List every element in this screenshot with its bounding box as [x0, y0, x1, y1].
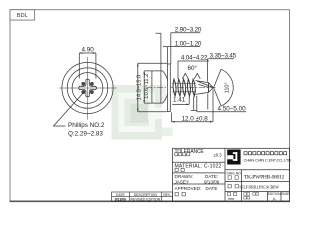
- dim 10.6~11.2: [144, 71, 152, 103]
- head dome outline: [152, 71, 163, 103]
- sheet border: [10, 10, 290, 202]
- dim 4.50~5.00: [197, 94, 246, 112]
- thread lens 2: [178, 79, 181, 96]
- cjk 品名: [228, 185, 238, 188]
- top view horizontal centerline: [59, 87, 117, 89]
- column separator: [224, 148, 226, 201]
- top view vertical centerline: [87, 57, 89, 120]
- svg-text:1.00~1.20: 1.00~1.20: [175, 40, 202, 47]
- svg-text:DWG.NO: DWG.NO: [227, 172, 242, 176]
- svg-text:4.90: 4.90: [81, 46, 94, 53]
- svg-text:APPROVED:: APPROVED:: [175, 186, 202, 191]
- leader line to phillips note: [54, 92, 85, 127]
- thread lens 3: [183, 79, 186, 96]
- svg-text:1.41: 1.41: [173, 97, 186, 104]
- svg-text:Q:2.29~2.83: Q:2.29~2.83: [68, 131, 103, 138]
- dim 1.00~1.20 line: [163, 47, 200, 64]
- row separators left column: [173, 161, 226, 163]
- dwg no label: [227, 172, 290, 202]
- svg-text:PAGE: PAGE: [281, 192, 290, 196]
- svg-text:±0.3: ±0.3: [214, 152, 223, 157]
- thread lens 1: [173, 79, 176, 96]
- svg-text:CHAN CHIN C.ENT.CO.,LTD.: CHAN CHIN C.ENT.CO.,LTD.: [244, 158, 292, 163]
- drill flute edge: [197, 81, 213, 88]
- drill point tip: [209, 83, 214, 93]
- cjk size/scale tiny: [244, 193, 259, 199]
- dim 14.0~15.0: [138, 63, 167, 112]
- svg-text:9/13/06: 9/13/06: [204, 180, 220, 185]
- watermark logo: [112, 85, 173, 140]
- svg-text:DATE: DATE: [206, 186, 218, 191]
- right rows: [225, 169, 289, 171]
- label/value separator: [241, 170, 243, 202]
- thread lens 4: [187, 79, 190, 96]
- svg-text:BDL: BDL: [17, 13, 28, 19]
- cjk 圖號: [228, 176, 238, 179]
- dim 2.90~3.20 left tail: [156, 33, 161, 103]
- bottom row cell separators: [267, 192, 269, 202]
- top view middle circle (pan dome): [67, 68, 108, 109]
- company logo: [227, 150, 240, 165]
- top view outer circle (head flange): [62, 62, 113, 113]
- texts: dimensions: [68, 27, 246, 138]
- svg-text:TK-PWPHB-08012: TK-PWPHB-08012: [244, 174, 285, 180]
- svg-text:3.35~3.45: 3.35~3.45: [210, 53, 237, 60]
- thread lens 5: [192, 79, 195, 96]
- 60 degree carets: [182, 73, 200, 78]
- phillips recess corner blobs: [82, 82, 85, 85]
- svg-text:Phillips NO.2: Phillips NO.2: [68, 122, 105, 129]
- svg-text:DESCRIPTION: DESCRIPTION: [134, 193, 158, 197]
- side view centerline: [147, 87, 218, 89]
- sheet bottom thick border: [10, 200, 290, 202]
- revision strip: [112, 192, 173, 201]
- svg-text:110°: 110°: [224, 82, 230, 93]
- svg-text:4.50~5.00: 4.50~5.00: [218, 105, 247, 112]
- cjk 材質: [175, 168, 184, 171]
- svg-text:REV.: REV.: [163, 193, 171, 197]
- svg-text:REVISED EDITION: REVISED EDITION: [131, 197, 161, 201]
- svg-text:60°: 60°: [188, 64, 198, 72]
- dim 4.04~4.22 line: [178, 61, 209, 79]
- title block outline: [173, 148, 290, 201]
- svg-text:9/13/06: 9/13/06: [115, 197, 126, 201]
- title block texts: [175, 149, 223, 196]
- svg-text:JASEY: JASEY: [175, 180, 190, 185]
- top view inner circle (dome crown): [72, 73, 103, 104]
- BDL box: [10, 10, 35, 20]
- dim 4.90 extension lines: [78, 53, 80, 79]
- svg-text:DRAWN:: DRAWN:: [175, 174, 193, 179]
- title block: [173, 148, 290, 201]
- cjk 核准: [175, 193, 185, 196]
- svg-text:14.0~15.0: 14.0~15.0: [136, 75, 142, 100]
- drill point body: [196, 81, 209, 95]
- dim 2.90~3.20 line: [171, 33, 200, 64]
- head flange: [168, 64, 171, 112]
- svg-text:SELF DRILLING SCREW: SELF DRILLING SCREW: [239, 184, 279, 189]
- dim 12.0 +-0.8: [172, 90, 214, 122]
- dim 1.41: [172, 97, 197, 111]
- svg-text:2.90~3.20: 2.90~3.20: [175, 27, 202, 34]
- cjk 單位: [228, 193, 237, 196]
- point angle fan: [214, 69, 234, 106]
- svg-text:12.0 ±0.8: 12.0 ±0.8: [182, 116, 209, 123]
- svg-text:mm: mm: [228, 197, 234, 201]
- thread root lines: [173, 82, 197, 84]
- head dome crown arc: [163, 71, 169, 103]
- company chinese name: [244, 152, 287, 155]
- svg-text:DATE: DATE: [116, 193, 126, 197]
- dim 4.90 dimension line: [79, 52, 96, 54]
- cjk 一般公差: [175, 153, 190, 156]
- dim 3.35~3.45 line: [208, 59, 234, 82]
- svg-text:DATE:: DATE:: [205, 174, 218, 179]
- svg-text:4.04~4.22: 4.04~4.22: [181, 55, 208, 62]
- svg-text:10.6~11.2: 10.6~11.2: [144, 74, 150, 99]
- phillips recess star: [79, 79, 97, 97]
